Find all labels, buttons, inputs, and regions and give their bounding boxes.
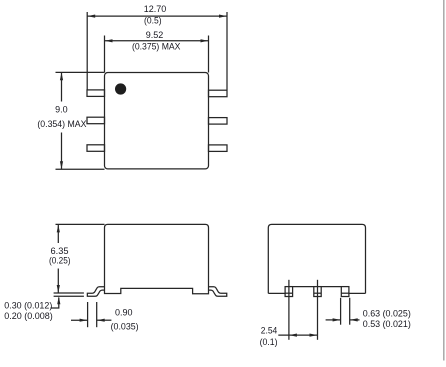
dimension 0.90 (0.035): extension line right — [96, 302, 98, 327]
dimension 9.52 (0.375) MAX: extension line right — [208, 36, 210, 73]
front view: recessed bottom segment between pin 1 and pin 2 — [293, 286, 314, 288]
dimension 0.63/0.53: left arrow line — [326, 319, 341, 321]
dimension 9.0 (0.354) MAX: extension line bottom — [56, 168, 105, 170]
dimension 0.90: left arrow line — [71, 319, 88, 321]
pin 1 index dot — [115, 83, 126, 94]
lead thickness reference line (top of foot) — [54, 292, 84, 294]
svg-text:0.30 (0.012): 0.30 (0.012) — [4, 299, 52, 310]
dimension 6.35 (0.25): extension line top — [56, 223, 105, 225]
front view: package body outline — [268, 224, 365, 293]
dimension 12.70 (0.5): dimension line — [87, 15, 227, 17]
svg-text:0.20 (0.008): 0.20 (0.008) — [4, 310, 53, 321]
dimension 0.90: left arrowhead — [80, 319, 88, 322]
svg-text:(0.354) MAX: (0.354) MAX — [37, 118, 87, 129]
pin 1 center line / 2.54 extension — [288, 280, 290, 340]
dimension 12.70 (0.5): right arrowhead — [219, 15, 227, 18]
lead thickness 0.30/0.20 leader line — [51, 298, 59, 309]
dimension 2.54: left arrowhead — [289, 334, 297, 337]
pin 5 (top view, right) — [209, 118, 228, 125]
dimension 6.35: dimension line lower segment — [57, 269, 59, 293]
pin 1 (front view) — [285, 287, 293, 297]
dimension 6.35: top arrowhead — [57, 225, 60, 233]
dimension 0.90: right arrowhead — [97, 319, 105, 322]
dimension 9.0: top arrowhead — [60, 72, 63, 80]
side view: right gull-wing lead — [209, 287, 227, 297]
dimension 2.54: right arrowhead — [310, 334, 318, 337]
pin 2 center line / 2.54 extension — [317, 280, 319, 340]
svg-text:0.53 (0.021): 0.53 (0.021) — [363, 318, 411, 329]
svg-text:2.54: 2.54 — [261, 325, 278, 336]
pin 1 (top view, left) — [87, 90, 105, 97]
pin 2 seating line — [314, 292, 321, 294]
dimension 9.0 (0.354) MAX: extension line top — [56, 71, 105, 73]
dimension 12.70 (0.5): extension line right — [226, 12, 228, 90]
dimension 9.52: left arrowhead — [105, 39, 113, 42]
pin 2 (top view, left) — [87, 117, 105, 124]
svg-text:9.0: 9.0 — [55, 104, 68, 115]
svg-text:(0.375) MAX: (0.375) MAX — [132, 40, 181, 51]
top view: package body outline — [105, 73, 209, 169]
dimension 9.52 (0.375) MAX: dimension line — [105, 40, 209, 42]
dimension 0.90: right arrow line — [97, 319, 112, 321]
lead thickness reference line (bottom of foot) — [54, 295, 84, 297]
lead thickness leader arrowhead (points up to foot bottom) — [57, 297, 60, 305]
svg-text:(0.25): (0.25) — [49, 255, 71, 266]
dimension 9.52: right arrowhead — [201, 39, 209, 42]
svg-text:(0.035): (0.035) — [111, 321, 139, 332]
pin 2 (front view) — [314, 287, 321, 297]
dimension 9.0: bottom arrowhead — [60, 161, 63, 169]
front view: bottom edge left segment — [268, 292, 285, 294]
dimension 0.63/0.53: left arrowhead — [333, 318, 341, 321]
dimension 9.52 (0.375) MAX: extension line left — [104, 36, 106, 73]
front view: recessed bottom segment between pin 2 and pin 3 — [321, 286, 341, 288]
dimension 12.70 (0.5): left arrowhead — [87, 15, 95, 18]
dimension 2.54 (0.1): dimension line — [278, 334, 317, 336]
side view: package body outline — [105, 224, 209, 293]
dimension 0.63/0.53: right arrow line — [350, 319, 360, 321]
pin 6 (top view, right) — [209, 90, 228, 97]
dimension 6.35: bottom arrowhead — [57, 285, 60, 293]
front view: bottom edge right segment — [349, 292, 366, 294]
dimension 6.35: dimension line upper segment — [57, 224, 59, 243]
svg-text:12.70: 12.70 — [144, 3, 167, 14]
svg-text:9.52: 9.52 — [146, 29, 164, 40]
dimension 0.90 (0.035): extension line left — [87, 302, 89, 327]
dimension 0.63/0.53: extension line left — [340, 298, 342, 325]
dimension 12.70 (0.5): extension line left — [86, 12, 88, 90]
dimension 0.63/0.53: right arrowhead — [350, 318, 358, 321]
svg-text:0.90: 0.90 — [115, 307, 133, 318]
svg-text:(0.5): (0.5) — [144, 14, 162, 25]
pin 3 (front view) — [341, 287, 349, 297]
pin 3 (top view, left) — [87, 145, 105, 152]
pin 4 (top view, right) — [209, 145, 228, 152]
svg-text:(0.1): (0.1) — [260, 336, 278, 347]
pin 3 seating line — [341, 292, 349, 294]
table cell border (right rule) — [443, 0, 445, 361]
dimension 9.0: dimension line upper segment — [61, 72, 63, 101]
pin 1 seating line — [285, 292, 293, 294]
dimension 0.63/0.53: extension line right — [349, 298, 351, 325]
side view: left gull-wing lead — [87, 287, 104, 297]
dimension 9.0: dimension line lower segment — [61, 133, 63, 170]
svg-text:0.63 (0.025): 0.63 (0.025) — [363, 307, 411, 318]
